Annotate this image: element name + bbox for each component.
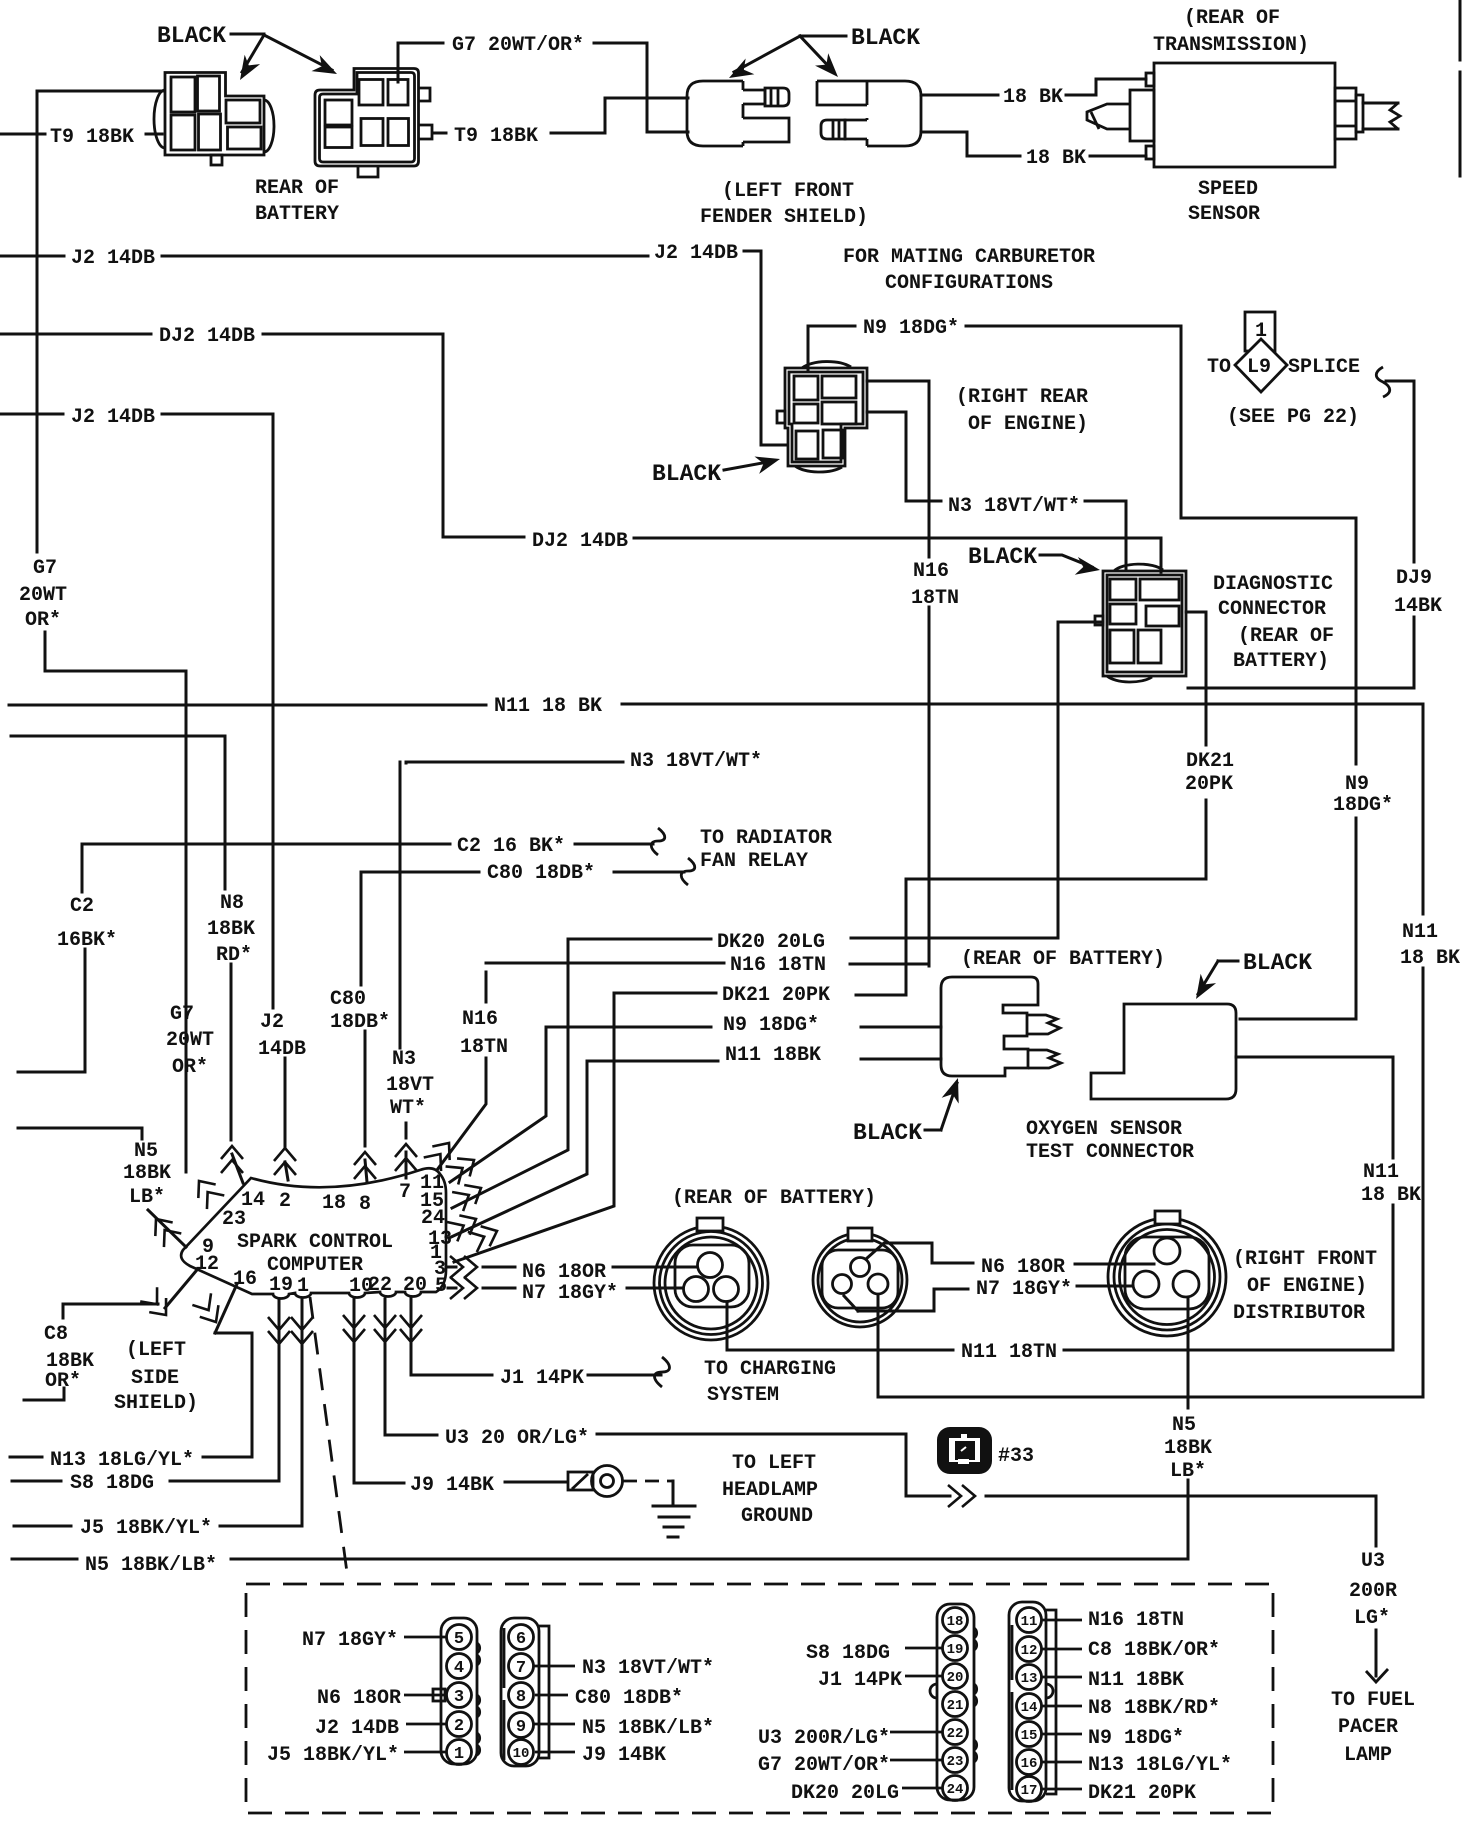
svg-text:G7 20WT/OR*: G7 20WT/OR* [758, 1754, 890, 1777]
svg-text:BLACK: BLACK [851, 25, 920, 51]
svg-text:J2: J2 [260, 1011, 284, 1034]
svg-text:18DG*: 18DG* [1333, 794, 1393, 817]
svg-text:SIDE: SIDE [131, 1367, 179, 1390]
svg-text:N5: N5 [134, 1140, 158, 1163]
svg-text:24: 24 [947, 1782, 964, 1798]
svg-text:15: 15 [1021, 1728, 1038, 1744]
svg-text:18: 18 [322, 1192, 346, 1215]
svg-text:14DB: 14DB [258, 1038, 306, 1061]
svg-text:SHIELD): SHIELD) [114, 1392, 198, 1415]
svg-text:DK20 20LG: DK20 20LG [791, 1782, 899, 1805]
svg-text:OR*: OR* [172, 1056, 208, 1079]
svg-text:TRANSMISSION): TRANSMISSION) [1153, 34, 1309, 57]
svg-text:U3 20 OR/LG*: U3 20 OR/LG* [445, 1427, 589, 1450]
svg-text:SYSTEM: SYSTEM [707, 1384, 779, 1407]
svg-text:J2 14DB: J2 14DB [71, 406, 155, 429]
svg-text:SPEED: SPEED [1198, 178, 1258, 201]
svg-text:TO RADIATOR: TO RADIATOR [700, 827, 832, 850]
svg-text:13: 13 [1021, 1671, 1038, 1687]
svg-text:18BK: 18BK [1164, 1437, 1212, 1460]
svg-text:DK20 20LG: DK20 20LG [717, 931, 825, 954]
svg-text:DJ2 14DB: DJ2 14DB [532, 530, 628, 553]
svg-text:(REAR OF BATTERY): (REAR OF BATTERY) [961, 948, 1165, 971]
svg-text:L9: L9 [1247, 356, 1271, 379]
svg-text:N11 18BK: N11 18BK [725, 1044, 821, 1067]
svg-text:LAMP: LAMP [1344, 1744, 1392, 1767]
svg-text:20: 20 [947, 1670, 964, 1686]
svg-text:N16: N16 [462, 1008, 498, 1031]
svg-text:DK21 20PK: DK21 20PK [1088, 1782, 1196, 1805]
svg-text:N3 18VT/WT*: N3 18VT/WT* [582, 1657, 714, 1680]
svg-text:OR*: OR* [45, 1370, 81, 1393]
svg-text:7: 7 [516, 1659, 526, 1678]
svg-text:14: 14 [1021, 1700, 1038, 1716]
svg-text:8: 8 [359, 1193, 371, 1216]
svg-text:6: 6 [516, 1630, 526, 1649]
svg-text:TEST CONNECTOR: TEST CONNECTOR [1026, 1141, 1194, 1164]
svg-text:(RIGHT REAR: (RIGHT REAR [956, 386, 1088, 409]
svg-text:BLACK: BLACK [652, 461, 721, 487]
svg-text:N8 18BK/RD*: N8 18BK/RD* [1088, 1697, 1220, 1720]
svg-text:PACER: PACER [1338, 1716, 1398, 1739]
svg-text:BLACK: BLACK [1243, 950, 1312, 976]
svg-text:19: 19 [269, 1274, 293, 1297]
svg-text:S8 18DG: S8 18DG [806, 1642, 890, 1665]
svg-text:N11: N11 [1363, 1161, 1399, 1184]
svg-text:16: 16 [1021, 1756, 1038, 1772]
svg-text:G7 20WT/OR*: G7 20WT/OR* [452, 34, 584, 57]
svg-text:N5 18BK/LB*: N5 18BK/LB* [85, 1554, 217, 1577]
svg-text:TO LEFT: TO LEFT [732, 1452, 816, 1475]
svg-text:DJ9: DJ9 [1396, 567, 1432, 590]
svg-text:N6 18OR: N6 18OR [317, 1687, 401, 1710]
svg-text:G7: G7 [33, 557, 57, 580]
svg-text:20PK: 20PK [1185, 773, 1233, 796]
svg-text:18 BK: 18 BK [1400, 947, 1460, 970]
svg-text:18TN: 18TN [460, 1036, 508, 1059]
svg-text:OR*: OR* [25, 609, 61, 632]
svg-text:DISTRIBUTOR: DISTRIBUTOR [1233, 1302, 1365, 1325]
svg-text:DK21 20PK: DK21 20PK [722, 984, 830, 1007]
svg-text:N16 18TN: N16 18TN [1088, 1609, 1184, 1632]
svg-text:CONNECTOR: CONNECTOR [1218, 598, 1326, 621]
svg-text:N11 18BK: N11 18BK [1088, 1669, 1184, 1692]
svg-text:J1 14PK: J1 14PK [818, 1669, 902, 1692]
svg-text:(REAR OF: (REAR OF [1184, 7, 1280, 30]
svg-text:BLACK: BLACK [853, 1120, 922, 1146]
svg-text:(SEE PG 22): (SEE PG 22) [1227, 406, 1359, 429]
svg-text:2: 2 [279, 1190, 291, 1213]
svg-text:N9: N9 [1345, 773, 1369, 796]
svg-text:N11 18 BK: N11 18 BK [494, 695, 602, 718]
svg-text:C2 16 BK*: C2 16 BK* [457, 835, 565, 858]
svg-text:12: 12 [195, 1253, 219, 1276]
svg-text:FENDER SHIELD): FENDER SHIELD) [700, 206, 868, 229]
svg-text:FOR MATING CARBURETOR: FOR MATING CARBURETOR [843, 246, 1095, 269]
svg-text:BLACK: BLACK [968, 544, 1037, 570]
svg-text:18 BK: 18 BK [1361, 1184, 1421, 1207]
svg-text:17: 17 [1021, 1783, 1038, 1799]
svg-text:5: 5 [435, 1275, 447, 1298]
svg-text:RD*: RD* [216, 944, 252, 967]
svg-text:N3: N3 [392, 1048, 416, 1071]
svg-text:U3 200R/LG*: U3 200R/LG* [758, 1727, 890, 1750]
svg-text:16: 16 [233, 1268, 257, 1291]
svg-text:N6 18OR: N6 18OR [981, 1256, 1065, 1279]
svg-text:TO FUEL: TO FUEL [1331, 1689, 1415, 1712]
svg-text:GROUND: GROUND [741, 1505, 813, 1528]
svg-text:20WT: 20WT [19, 584, 67, 607]
svg-text:18DB*: 18DB* [330, 1011, 390, 1034]
svg-text:C80 18DB*: C80 18DB* [487, 862, 595, 885]
svg-text:18VT: 18VT [386, 1074, 434, 1097]
svg-text:18 BK: 18 BK [1003, 86, 1063, 109]
svg-text:OF ENGINE): OF ENGINE) [1247, 1275, 1367, 1298]
svg-text:N11 18TN: N11 18TN [961, 1341, 1057, 1364]
svg-text:N7 18GY*: N7 18GY* [522, 1282, 618, 1305]
svg-text:22: 22 [368, 1274, 392, 1297]
svg-text:10: 10 [513, 1746, 530, 1762]
svg-text:SPLICE: SPLICE [1288, 356, 1360, 379]
svg-text:N6 18OR: N6 18OR [522, 1261, 606, 1284]
svg-text:J1 14PK: J1 14PK [500, 1367, 584, 1390]
svg-text:HEADLAMP: HEADLAMP [722, 1479, 818, 1502]
svg-text:FAN RELAY: FAN RELAY [700, 850, 808, 873]
svg-text:20WT: 20WT [166, 1029, 214, 1052]
svg-text:(RIGHT FRONT: (RIGHT FRONT [1233, 1248, 1377, 1271]
svg-text:(REAR OF: (REAR OF [1238, 625, 1334, 648]
svg-text:N16: N16 [913, 560, 949, 583]
svg-text:REAR OF: REAR OF [255, 177, 339, 200]
svg-text:21: 21 [947, 1698, 964, 1714]
svg-text:G7: G7 [170, 1003, 194, 1026]
svg-text:LG*: LG* [1354, 1607, 1390, 1630]
svg-text:J5 18BK/YL*: J5 18BK/YL* [80, 1517, 212, 1540]
svg-text:DK21: DK21 [1186, 750, 1234, 773]
svg-text:BATTERY): BATTERY) [1233, 650, 1329, 673]
svg-text:BLACK: BLACK [157, 23, 226, 49]
svg-text:23: 23 [947, 1754, 964, 1770]
svg-text:DIAGNOSTIC: DIAGNOSTIC [1213, 573, 1333, 596]
svg-text:N3 18VT/WT*: N3 18VT/WT* [948, 495, 1080, 518]
svg-text:14BK: 14BK [1394, 595, 1442, 618]
svg-text:19: 19 [947, 1642, 964, 1658]
svg-text:TO: TO [1207, 356, 1231, 379]
svg-text:OF ENGINE): OF ENGINE) [968, 413, 1088, 436]
svg-text:(LEFT FRONT: (LEFT FRONT [722, 180, 854, 203]
svg-text:SPARK CONTROL: SPARK CONTROL [237, 1231, 393, 1254]
svg-text:4: 4 [454, 1659, 464, 1678]
svg-text:N5 18BK/LB*: N5 18BK/LB* [582, 1717, 714, 1740]
svg-text:23: 23 [222, 1208, 246, 1231]
svg-text:1: 1 [1255, 320, 1267, 343]
svg-text:N5: N5 [1172, 1414, 1196, 1437]
svg-text:TO CHARGING: TO CHARGING [704, 1358, 836, 1381]
svg-text:LB*: LB* [129, 1186, 165, 1209]
svg-text:(LEFT: (LEFT [126, 1339, 186, 1362]
svg-text:N11: N11 [1402, 921, 1438, 944]
svg-text:BATTERY: BATTERY [255, 203, 339, 226]
svg-text:1: 1 [297, 1275, 309, 1298]
svg-text:3: 3 [454, 1688, 464, 1707]
svg-text:20: 20 [403, 1274, 427, 1297]
svg-text:WT*: WT* [390, 1097, 426, 1120]
svg-text:1: 1 [454, 1745, 464, 1764]
svg-text:24: 24 [421, 1207, 445, 1230]
svg-text:T9 18BK: T9 18BK [50, 126, 134, 149]
svg-text:N16 18TN: N16 18TN [730, 954, 826, 977]
svg-text:N7 18GY*: N7 18GY* [976, 1278, 1072, 1301]
svg-text:N8: N8 [220, 892, 244, 915]
svg-text:12: 12 [1021, 1643, 1038, 1659]
svg-text:N9 18DG*: N9 18DG* [863, 317, 959, 340]
svg-text:N7 18GY*: N7 18GY* [302, 1629, 398, 1652]
svg-text:OXYGEN SENSOR: OXYGEN SENSOR [1026, 1118, 1182, 1141]
svg-text:7: 7 [399, 1181, 411, 1204]
svg-text:N13 18LG/YL*: N13 18LG/YL* [50, 1449, 194, 1472]
svg-text:T9 18BK: T9 18BK [454, 125, 538, 148]
svg-text:18: 18 [947, 1614, 964, 1630]
svg-text:22: 22 [947, 1726, 964, 1742]
svg-text:2: 2 [454, 1717, 464, 1736]
svg-text:LB*: LB* [1170, 1460, 1206, 1483]
svg-text:C8 18BK/OR*: C8 18BK/OR* [1088, 1639, 1220, 1662]
svg-text:18BK: 18BK [123, 1162, 171, 1185]
svg-text:11: 11 [1021, 1614, 1038, 1630]
svg-text:J2 14DB: J2 14DB [315, 1717, 399, 1740]
svg-text:18BK: 18BK [207, 918, 255, 941]
svg-text:(REAR OF BATTERY): (REAR OF BATTERY) [672, 1187, 876, 1210]
svg-text:S8 18DG: S8 18DG [70, 1472, 154, 1495]
svg-text:SENSOR: SENSOR [1188, 203, 1260, 226]
svg-text:U3: U3 [1361, 1550, 1385, 1573]
svg-text:J5 18BK/YL*: J5 18BK/YL* [267, 1744, 399, 1767]
svg-text:16BK*: 16BK* [57, 929, 117, 952]
svg-text:C2: C2 [70, 895, 94, 918]
svg-text:5: 5 [454, 1630, 464, 1649]
svg-text:18 BK: 18 BK [1026, 147, 1086, 170]
svg-text:N9 18DG*: N9 18DG* [1088, 1727, 1184, 1750]
svg-text:CONFIGURATIONS: CONFIGURATIONS [885, 272, 1053, 295]
svg-text:J9 14BK: J9 14BK [582, 1744, 666, 1767]
svg-text:C80: C80 [330, 988, 366, 1011]
svg-text:200R: 200R [1349, 1580, 1397, 1603]
svg-text:18TN: 18TN [911, 587, 959, 610]
svg-text:#33: #33 [998, 1445, 1034, 1468]
svg-text:9: 9 [516, 1718, 526, 1737]
svg-text:C8: C8 [44, 1323, 68, 1346]
svg-text:J2 14DB: J2 14DB [654, 242, 738, 265]
svg-text:J9 14BK: J9 14BK [410, 1474, 494, 1497]
svg-text:C80 18DB*: C80 18DB* [575, 1687, 683, 1710]
svg-text:8: 8 [516, 1688, 526, 1707]
svg-text:DJ2 14DB: DJ2 14DB [159, 325, 255, 348]
svg-text:N9 18DG*: N9 18DG* [723, 1014, 819, 1037]
svg-text:N13 18LG/YL*: N13 18LG/YL* [1088, 1754, 1232, 1777]
svg-text:J2 14DB: J2 14DB [71, 247, 155, 270]
svg-text:N3 18VT/WT*: N3 18VT/WT* [630, 750, 762, 773]
